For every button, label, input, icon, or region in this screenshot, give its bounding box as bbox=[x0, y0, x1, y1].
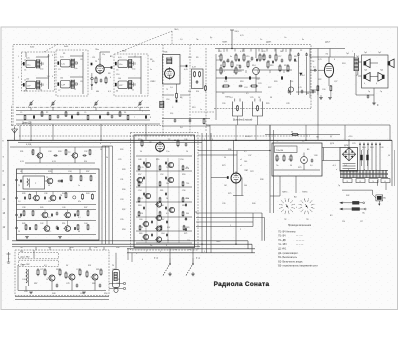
svg-text:Д1 НЧ1: Д1 НЧ1 bbox=[278, 249, 287, 251]
svg-text:R41: R41 bbox=[62, 193, 65, 195]
svg-text:R23: R23 bbox=[238, 71, 241, 73]
svg-text:5,6к: 5,6к bbox=[132, 69, 136, 71]
svg-text:910: 910 bbox=[84, 161, 87, 163]
svg-text:С13: С13 bbox=[150, 81, 153, 83]
svg-text:R44: R44 bbox=[70, 247, 73, 249]
svg-text:68: 68 bbox=[78, 231, 80, 233]
svg-text:30: 30 bbox=[270, 97, 272, 99]
svg-text:100: 100 bbox=[118, 78, 121, 80]
svg-text:R42: R42 bbox=[346, 195, 349, 197]
svg-text:Л4: Л4 bbox=[312, 61, 314, 63]
svg-text:C14: C14 bbox=[188, 57, 191, 59]
svg-text:R48: R48 bbox=[52, 293, 55, 295]
svg-text:Оч: Оч bbox=[284, 37, 286, 39]
svg-text:2: 2 bbox=[240, 229, 241, 231]
svg-text:0,33: 0,33 bbox=[20, 161, 24, 163]
svg-text:ДЗчТ: ДЗчТ bbox=[325, 42, 331, 44]
svg-text:4: 4 bbox=[364, 83, 365, 85]
svg-text:910: 910 bbox=[88, 265, 91, 267]
svg-text:~6,3: ~6,3 bbox=[332, 165, 336, 167]
svg-text:R38: R38 bbox=[260, 179, 263, 181]
svg-text:C70: C70 bbox=[352, 143, 355, 145]
svg-text:R87: R87 bbox=[34, 283, 37, 285]
svg-text:R24: R24 bbox=[342, 63, 345, 65]
svg-text:R89: R89 bbox=[92, 283, 95, 285]
svg-text:10: 10 bbox=[258, 97, 260, 99]
svg-text:R73: R73 bbox=[222, 165, 225, 167]
svg-text:С30: С30 bbox=[322, 89, 325, 91]
svg-text:1,0: 1,0 bbox=[170, 87, 173, 89]
svg-text:C76: C76 bbox=[112, 269, 115, 271]
svg-text:Вч: Вч bbox=[363, 213, 365, 215]
svg-text:П2Пб: П2Пб bbox=[282, 192, 288, 194]
svg-text:С25: С25 bbox=[250, 97, 253, 99]
svg-text:2б: 2б bbox=[106, 157, 108, 159]
svg-text:C8: C8 bbox=[80, 81, 82, 83]
svg-text:C56: C56 bbox=[182, 190, 185, 192]
svg-text:Л5: Л5 bbox=[218, 56, 220, 58]
svg-text:П1- ДВ: П1- ДВ bbox=[278, 240, 286, 242]
svg-text:75: 75 bbox=[166, 89, 168, 91]
svg-text:Пч: Пч bbox=[276, 165, 278, 167]
svg-text:0,3: 0,3 bbox=[140, 198, 143, 200]
svg-text:П2: П2 bbox=[284, 219, 286, 221]
svg-text:12: 12 bbox=[132, 90, 134, 92]
svg-text:5к: 5к bbox=[141, 240, 143, 242]
svg-text:С19: С19 bbox=[236, 65, 239, 67]
svg-text:C74: C74 bbox=[76, 269, 79, 271]
svg-text:750: 750 bbox=[166, 167, 169, 169]
svg-text:75: 75 bbox=[18, 185, 20, 187]
svg-text:0,15Д: 0,15Д bbox=[26, 144, 32, 146]
svg-text:12: 12 bbox=[40, 90, 42, 92]
svg-text:R65: R65 bbox=[182, 205, 185, 207]
svg-text:В2- Включатель анодн.: В2- Включатель анодн. bbox=[278, 261, 303, 263]
svg-text:R57: R57 bbox=[138, 174, 141, 176]
svg-text:С43: С43 bbox=[24, 291, 27, 293]
svg-text:C34: C34 bbox=[68, 171, 71, 173]
svg-text:4: 4 bbox=[52, 76, 53, 78]
svg-text:R34: R34 bbox=[122, 229, 125, 231]
svg-text:С47: С47 bbox=[22, 279, 25, 281]
svg-text:R37: R37 bbox=[86, 171, 89, 173]
svg-text:— -- —: — -- — bbox=[296, 244, 304, 246]
svg-text:Тр1: Тр1 bbox=[346, 53, 349, 55]
svg-text:13к: 13к bbox=[186, 198, 189, 200]
svg-text:C72: C72 bbox=[40, 269, 43, 271]
svg-text:C64: C64 bbox=[161, 233, 164, 235]
svg-text:Кч60: Кч60 bbox=[122, 51, 126, 53]
svg-text:0,05: 0,05 bbox=[60, 57, 64, 59]
svg-text:4: 4 bbox=[376, 83, 377, 85]
svg-text:ЛЗП: ЛЗП bbox=[244, 170, 249, 172]
svg-text:8: 8 bbox=[334, 59, 335, 61]
svg-text:ВЗ- переключатель напряжения с: ВЗ- переключатель напряжения сети bbox=[278, 266, 318, 268]
svg-text:30: 30 bbox=[48, 185, 50, 187]
svg-text:6,3: 6,3 bbox=[108, 91, 111, 93]
svg-text:30: 30 bbox=[118, 279, 120, 281]
svg-text:1к: 1к bbox=[200, 109, 202, 111]
svg-text:6П14: 6П14 bbox=[300, 75, 305, 77]
svg-text:100: 100 bbox=[26, 79, 29, 81]
svg-text:Пл: Пл bbox=[20, 247, 22, 249]
svg-text:Пв: Пв bbox=[196, 39, 198, 41]
svg-text:С1: С1 bbox=[24, 70, 26, 72]
svg-text:Радиола Соната: Радиола Соната bbox=[214, 281, 270, 288]
svg-text:С31: С31 bbox=[120, 179, 123, 181]
svg-text:Гр2: Гр2 bbox=[378, 52, 381, 54]
svg-text:5: 5 bbox=[110, 56, 111, 58]
svg-text:x1: x1 bbox=[240, 159, 242, 161]
svg-text:5: 5 bbox=[204, 251, 205, 253]
svg-text:1к: 1к bbox=[46, 279, 48, 281]
svg-text:5,0: 5,0 bbox=[48, 231, 51, 233]
svg-text:R81: R81 bbox=[20, 251, 23, 253]
svg-text:C68: C68 bbox=[314, 155, 317, 157]
svg-text:(Г-б): (Г-б) bbox=[154, 258, 159, 260]
svg-text:0,15: 0,15 bbox=[140, 167, 144, 169]
svg-text:7 Вч ВЧ: 7 Вч ВЧ bbox=[276, 150, 284, 152]
svg-text:560: 560 bbox=[306, 93, 309, 95]
svg-text:C58: C58 bbox=[160, 205, 163, 207]
svg-text:Гр: Гр bbox=[380, 91, 382, 93]
svg-text:30: 30 bbox=[66, 265, 68, 267]
svg-text:0,1: 0,1 bbox=[240, 51, 243, 53]
svg-text:1,0: 1,0 bbox=[187, 227, 190, 229]
svg-text:Д7: Д7 bbox=[330, 136, 332, 138]
svg-text:C36: C36 bbox=[44, 193, 47, 195]
svg-text:П4: П4 bbox=[188, 249, 190, 251]
svg-text:Л1Б: Л1Б bbox=[164, 52, 169, 54]
svg-text:30: 30 bbox=[224, 157, 226, 159]
svg-text:С37: С37 bbox=[248, 155, 251, 157]
svg-text:5,1: 5,1 bbox=[222, 71, 225, 73]
svg-text:L9: L9 bbox=[20, 171, 22, 173]
svg-text:Кч60: Кч60 bbox=[30, 47, 34, 49]
svg-text:В2: В2 bbox=[302, 141, 304, 143]
svg-text:Л1: Л1 bbox=[22, 265, 24, 267]
svg-text:0,5: 0,5 bbox=[44, 265, 47, 267]
svg-text:910: 910 bbox=[196, 91, 199, 93]
svg-text:20: 20 bbox=[166, 198, 168, 200]
svg-text:0,25: 0,25 bbox=[298, 87, 302, 89]
svg-text:ПЗПб: ПЗПб bbox=[302, 192, 308, 194]
svg-text:В1- Выключатель: В1- Выключатель bbox=[278, 257, 297, 259]
svg-text:в: в bbox=[100, 143, 101, 145]
svg-text:R10: R10 bbox=[262, 56, 265, 58]
svg-text:R21: R21 bbox=[294, 61, 297, 63]
svg-text:R26: R26 bbox=[120, 149, 123, 151]
svg-text:П1- ВЧ: П1- ВЧ bbox=[278, 236, 286, 238]
svg-text:Лв: Лв bbox=[150, 245, 152, 247]
svg-text:1: 1 bbox=[230, 225, 231, 227]
svg-text:C48: C48 bbox=[138, 159, 141, 161]
svg-text:C80: C80 bbox=[116, 283, 119, 285]
svg-text:C2: C2 bbox=[47, 56, 49, 58]
svg-text:R32: R32 bbox=[122, 209, 125, 211]
svg-text:R36: R36 bbox=[228, 149, 231, 151]
svg-text:5,0: 5,0 bbox=[140, 183, 143, 185]
svg-text:L7: L7 bbox=[134, 56, 136, 58]
svg-text:5: 5 bbox=[160, 251, 161, 253]
svg-text:R4: R4 bbox=[124, 112, 126, 114]
svg-text:0,05: 0,05 bbox=[118, 57, 122, 59]
svg-text:R43: R43 bbox=[86, 193, 89, 195]
svg-text:750: 750 bbox=[186, 183, 189, 185]
svg-text:R35: R35 bbox=[48, 171, 51, 173]
svg-text:R13: R13 bbox=[192, 107, 195, 109]
svg-text:R63: R63 bbox=[138, 205, 141, 207]
svg-text:R59: R59 bbox=[182, 174, 185, 176]
svg-text:7: 7 bbox=[142, 111, 143, 113]
svg-text:Чс- чВЧ: Чс- чВЧ bbox=[278, 244, 287, 246]
svg-text:С45: С45 bbox=[80, 293, 83, 295]
svg-text:С3: С3 bbox=[58, 69, 60, 71]
svg-text:R16: R16 bbox=[284, 65, 287, 67]
svg-text:C30: C30 bbox=[48, 151, 51, 153]
svg-text:Диап ЛВ2: Диап ЛВ2 bbox=[21, 256, 31, 258]
svg-text:6: 6 bbox=[212, 139, 213, 141]
svg-text:5,6к: 5,6к bbox=[40, 69, 44, 71]
svg-text:12: 12 bbox=[74, 89, 76, 91]
svg-text:0,05: 0,05 bbox=[26, 58, 30, 60]
svg-text:Гр1: Гр1 bbox=[364, 52, 367, 54]
svg-text:П1: П1 bbox=[276, 141, 278, 143]
svg-text:C54: C54 bbox=[138, 190, 141, 192]
svg-text:910: 910 bbox=[167, 227, 170, 229]
svg-text:20: 20 bbox=[112, 265, 114, 267]
svg-text:R83: R83 bbox=[56, 269, 59, 271]
svg-text:С49: С49 bbox=[380, 147, 383, 149]
svg-text:1,0: 1,0 bbox=[180, 39, 183, 41]
svg-text:C44: C44 bbox=[84, 223, 87, 225]
svg-text:R40: R40 bbox=[252, 203, 255, 205]
svg-text:C6: C6 bbox=[80, 59, 82, 61]
svg-text:5: 5 bbox=[204, 139, 205, 141]
svg-text:5,6: 5,6 bbox=[18, 201, 21, 203]
svg-text:220: 220 bbox=[342, 221, 345, 223]
svg-text:120: 120 bbox=[48, 201, 51, 203]
svg-text:R69: R69 bbox=[139, 233, 142, 235]
svg-text:47к: 47к bbox=[78, 201, 81, 203]
svg-text:С39: С39 bbox=[222, 203, 225, 205]
svg-text:Л2: Л2 bbox=[168, 139, 170, 141]
svg-text:C32: C32 bbox=[84, 151, 87, 153]
svg-text:5,0: 5,0 bbox=[180, 127, 183, 129]
svg-text:7: 7 bbox=[146, 251, 147, 253]
svg-text:R12: R12 bbox=[294, 56, 297, 58]
svg-text:220: 220 bbox=[166, 69, 169, 71]
svg-text:510: 510 bbox=[170, 113, 173, 115]
svg-text:0,05: 0,05 bbox=[184, 69, 188, 71]
svg-text:R28: R28 bbox=[122, 169, 125, 171]
svg-text:1: 1 bbox=[18, 56, 19, 58]
svg-text:R79: R79 bbox=[298, 167, 301, 169]
svg-text:0,47: 0,47 bbox=[192, 67, 196, 69]
svg-text:1М: 1М bbox=[280, 51, 283, 53]
svg-text:127: 127 bbox=[360, 221, 363, 223]
svg-text:120: 120 bbox=[290, 81, 293, 83]
svg-text:Лч: Лч bbox=[260, 39, 262, 41]
svg-text:R51: R51 bbox=[62, 223, 65, 225]
svg-text:30: 30 bbox=[290, 165, 292, 167]
svg-text:C4: C4 bbox=[47, 76, 49, 78]
svg-text:R31: R31 bbox=[20, 151, 23, 153]
svg-text:C46: C46 bbox=[184, 139, 187, 141]
svg-text:ДчВТ: ДчВТ bbox=[266, 42, 272, 44]
svg-text:Провода включения: Провода включения bbox=[288, 224, 312, 227]
svg-text:Дч: Дч bbox=[210, 37, 212, 39]
svg-text:50,0: 50,0 bbox=[362, 147, 366, 149]
svg-text:R8: R8 bbox=[108, 73, 110, 75]
svg-text:R33: R33 bbox=[58, 151, 61, 153]
svg-text:R75: R75 bbox=[228, 193, 231, 195]
svg-text:Д7Ж: Д7Ж bbox=[330, 143, 334, 145]
svg-text:Д7Ж: Д7Ж bbox=[344, 145, 348, 147]
svg-text:П1- ВЧ Антенны: П1- ВЧ Антенны bbox=[278, 230, 296, 233]
svg-text:680: 680 bbox=[96, 91, 99, 93]
svg-text:— — —: — — — bbox=[296, 240, 305, 242]
svg-text:С35: С35 bbox=[120, 219, 123, 221]
svg-text:30: 30 bbox=[140, 151, 142, 153]
svg-text:R55: R55 bbox=[156, 159, 159, 161]
svg-text:П3: П3 bbox=[306, 219, 308, 221]
svg-text:C52: C52 bbox=[160, 174, 163, 176]
svg-text:R11: R11 bbox=[188, 91, 191, 93]
svg-text:— - —: — - — bbox=[296, 236, 303, 238]
svg-text:0,1: 0,1 bbox=[313, 67, 316, 69]
svg-text:R53: R53 bbox=[138, 139, 141, 141]
svg-text:C50: C50 bbox=[180, 159, 183, 161]
svg-text:R25: R25 bbox=[286, 71, 289, 73]
svg-text:R22: R22 bbox=[318, 79, 321, 81]
svg-text:20: 20 bbox=[268, 61, 270, 63]
svg-text:С5: С5 bbox=[116, 70, 118, 72]
svg-text:R71: R71 bbox=[184, 233, 187, 235]
svg-text:R18: R18 bbox=[240, 81, 243, 83]
svg-text:5ц4: 5ц4 bbox=[344, 165, 347, 167]
svg-text:С15: С15 bbox=[246, 56, 249, 58]
svg-text:0,25: 0,25 bbox=[318, 59, 322, 61]
svg-text:R85: R85 bbox=[96, 269, 99, 271]
svg-text:8: 8 bbox=[150, 117, 151, 119]
svg-text:R46: R46 bbox=[116, 247, 119, 249]
svg-text:30: 30 bbox=[167, 240, 169, 242]
svg-text:R2: R2 bbox=[46, 112, 48, 114]
svg-text:0,1: 0,1 bbox=[244, 151, 247, 153]
svg-text:C40: C40 bbox=[62, 207, 65, 209]
svg-text:R50: R50 bbox=[104, 293, 107, 295]
svg-text:Гр: Гр bbox=[368, 91, 370, 93]
svg-text:С29: С29 bbox=[118, 159, 121, 161]
svg-text:R61: R61 bbox=[160, 190, 163, 192]
svg-text:0,1: 0,1 bbox=[48, 217, 51, 219]
svg-text:Тр: Тр bbox=[338, 185, 340, 187]
svg-text:30: 30 bbox=[186, 167, 188, 169]
svg-text:68: 68 bbox=[220, 65, 222, 67]
svg-text:1к: 1к bbox=[150, 69, 152, 71]
svg-text:Лв45: Лв45 bbox=[216, 241, 220, 243]
svg-text:Л2П: Л2П bbox=[250, 171, 254, 173]
svg-text:R49: R49 bbox=[22, 223, 25, 225]
svg-text:R67: R67 bbox=[161, 219, 164, 221]
svg-text:12к: 12к bbox=[102, 54, 105, 56]
svg-text:Г: Г bbox=[134, 117, 135, 119]
svg-text:50,0: 50,0 bbox=[370, 147, 374, 149]
svg-text:C22: C22 bbox=[256, 79, 259, 81]
svg-text:R77: R77 bbox=[276, 159, 279, 161]
svg-text:C38: C38 bbox=[22, 207, 25, 209]
svg-text:L1: L1 bbox=[24, 60, 26, 62]
svg-text:Ф-34,5: Ф-34,5 bbox=[245, 135, 252, 138]
svg-text:R15: R15 bbox=[226, 61, 229, 63]
svg-text:3: 3 bbox=[52, 55, 53, 57]
svg-text:100: 100 bbox=[244, 161, 247, 163]
svg-text:20: 20 bbox=[186, 151, 188, 153]
svg-text:ЛчВТ: ЛчВТ bbox=[222, 42, 228, 44]
svg-text:6,8: 6,8 bbox=[24, 91, 27, 93]
svg-text:R47: R47 bbox=[84, 207, 87, 209]
svg-text:6: 6 bbox=[166, 245, 167, 247]
svg-text:С27: С27 bbox=[334, 81, 337, 83]
svg-text:Л3: Л3 bbox=[222, 93, 224, 95]
svg-text:x2: x2 bbox=[240, 165, 242, 167]
svg-text:R39: R39 bbox=[22, 193, 25, 195]
svg-text:С41: С41 bbox=[94, 247, 97, 249]
svg-text:100: 100 bbox=[60, 78, 63, 80]
svg-text:C24: C24 bbox=[244, 87, 247, 89]
svg-text:50: 50 bbox=[291, 132, 293, 134]
svg-text:5,0: 5,0 bbox=[310, 165, 313, 167]
svg-text:С23: С23 bbox=[258, 83, 261, 85]
svg-text:С33: С33 bbox=[120, 199, 123, 201]
svg-text:R27: R27 bbox=[268, 87, 271, 89]
svg-text:R17: R17 bbox=[248, 61, 251, 63]
svg-text:30: 30 bbox=[116, 91, 118, 93]
svg-text:5,0: 5,0 bbox=[230, 97, 233, 99]
svg-text:Тр2: Тр2 bbox=[356, 56, 359, 58]
svg-text:Кч: Кч bbox=[302, 39, 304, 41]
svg-text:C42: C42 bbox=[40, 223, 43, 225]
svg-text:R14: R14 bbox=[252, 65, 255, 67]
svg-text:2: 2 bbox=[18, 77, 19, 79]
svg-text:0,1: 0,1 bbox=[98, 59, 101, 61]
svg-text:R1: R1 bbox=[63, 53, 65, 55]
svg-text:0,25: 0,25 bbox=[240, 35, 244, 37]
svg-text:Кч60: Кч60 bbox=[64, 46, 68, 48]
svg-text:0,33: 0,33 bbox=[52, 161, 56, 163]
svg-text:R5: R5 bbox=[152, 61, 154, 63]
svg-text:13к: 13к bbox=[166, 183, 169, 185]
svg-text:0,1: 0,1 bbox=[70, 279, 73, 281]
svg-text:0,5: 0,5 bbox=[246, 93, 249, 95]
svg-text:С11: С11 bbox=[92, 57, 95, 59]
svg-text:910: 910 bbox=[140, 213, 143, 215]
svg-text:300: 300 bbox=[18, 217, 21, 219]
svg-text:С7: С7 bbox=[58, 90, 60, 92]
svg-text:5,6к: 5,6к bbox=[74, 68, 78, 70]
svg-text:R29: R29 bbox=[266, 103, 269, 105]
svg-text:Гр3: Гр3 bbox=[364, 70, 367, 72]
svg-text:6: 6 bbox=[110, 77, 111, 79]
svg-text:9,1: 9,1 bbox=[78, 217, 81, 219]
svg-text:C78: C78 bbox=[66, 283, 69, 285]
svg-text:б: б bbox=[296, 207, 297, 209]
svg-text:1к: 1к bbox=[78, 185, 80, 187]
svg-text:C26: C26 bbox=[222, 103, 225, 105]
svg-text:50: 50 bbox=[388, 155, 390, 157]
svg-text:3: 3 bbox=[136, 253, 137, 255]
